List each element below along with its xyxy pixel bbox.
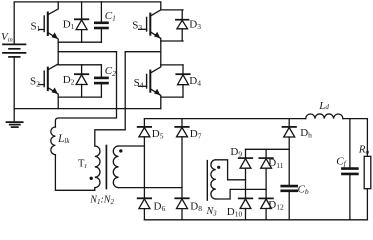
wire S2 snubber top bbox=[58, 64, 101, 66]
transformer core bbox=[105, 146, 107, 189]
diode D6 bbox=[138, 198, 151, 208]
battery Vin bbox=[3, 44, 26, 57]
svg-text:C2: C2 bbox=[105, 65, 116, 78]
top rail wire bbox=[14, 2, 161, 45]
svg-text:S3: S3 bbox=[132, 19, 142, 32]
wire secondary top to bridge bbox=[119, 145, 145, 147]
wire node A mid rail bbox=[58, 42, 116, 52]
diode D12 bbox=[259, 198, 273, 208]
transformer Tr primary winding N1 bbox=[95, 146, 100, 188]
svg-text:D11: D11 bbox=[268, 157, 283, 170]
wire L1k to primary bottom bbox=[55, 155, 94, 191]
wire N3 bottom to D11 leg bbox=[216, 189, 266, 199]
inductor Lf bbox=[306, 114, 343, 119]
resistor Ro bbox=[364, 156, 371, 188]
negative rail wire bbox=[14, 108, 161, 110]
diode D2 bbox=[75, 65, 88, 97]
diode D8 bbox=[175, 198, 188, 208]
wire battery to ground bbox=[13, 57, 15, 122]
wire S4 box bottom bbox=[161, 97, 183, 109]
wire rectifier bottom rail bbox=[144, 219, 367, 221]
transistor S2 bbox=[39, 52, 58, 97]
wire S3 box top bbox=[161, 9, 183, 11]
diode D3 bbox=[176, 10, 189, 41]
diode D1 bbox=[75, 2, 88, 42]
primary dot bbox=[90, 177, 93, 180]
svg-text:D12: D12 bbox=[268, 199, 284, 212]
svg-text:D4: D4 bbox=[189, 75, 201, 88]
rectifier right leg wire bbox=[181, 119, 183, 220]
svg-text:Dh: Dh bbox=[300, 127, 312, 140]
diode D9 bbox=[239, 158, 253, 168]
holdup diode leg wire bbox=[288, 119, 290, 185]
auxiliary winding N3 core bbox=[206, 161, 208, 201]
wire S3 box bottom bbox=[161, 40, 183, 42]
capacitor Cf bbox=[342, 119, 357, 220]
wire S4 box top bbox=[161, 64, 183, 66]
svg-text:D2: D2 bbox=[63, 74, 75, 87]
svg-text:D9: D9 bbox=[230, 146, 242, 159]
transformer Tr secondary winding N2 bbox=[113, 146, 118, 188]
svg-text:Vin: Vin bbox=[1, 31, 13, 43]
diode D5 bbox=[138, 127, 151, 137]
wire rectifier top rail bbox=[144, 118, 305, 120]
svg-text:N1:N2: N1:N2 bbox=[89, 195, 114, 207]
svg-text:Cb: Cb bbox=[298, 184, 309, 197]
capacitor C1 bbox=[95, 2, 107, 42]
svg-text:Cf: Cf bbox=[336, 156, 346, 169]
svg-text:Llk: Llk bbox=[57, 133, 70, 145]
secondary dot bbox=[119, 149, 122, 152]
ground bbox=[7, 122, 23, 127]
clamp left leg wire bbox=[245, 149, 247, 220]
transistor S1 bbox=[39, 2, 58, 42]
wire S1 snubber bottom bbox=[58, 41, 101, 43]
diode D11 bbox=[259, 158, 273, 168]
svg-text:N3: N3 bbox=[206, 206, 218, 218]
diode D10 bbox=[239, 198, 253, 208]
svg-text:S4: S4 bbox=[134, 77, 144, 90]
wire Lf to output bbox=[343, 119, 368, 157]
svg-text:D6: D6 bbox=[154, 201, 166, 214]
wire Ro bottom bbox=[366, 189, 368, 220]
diode D4 bbox=[176, 65, 189, 97]
transistor S4 bbox=[139, 65, 161, 97]
svg-text:S1: S1 bbox=[31, 20, 41, 33]
wire secondary bottom to bridge bbox=[119, 187, 183, 189]
svg-text:Ld: Ld bbox=[318, 100, 329, 112]
capacitor Cb bbox=[282, 186, 297, 220]
clamp right leg wire bbox=[265, 149, 267, 220]
capacitor C2 bbox=[95, 65, 107, 97]
wire S2 emitter to negative rail bbox=[57, 97, 59, 109]
svg-text:S2: S2 bbox=[30, 76, 40, 89]
svg-text:C1: C1 bbox=[105, 10, 116, 23]
svg-text:D1: D1 bbox=[63, 18, 75, 31]
wire S2 snubber bottom bbox=[58, 96, 101, 98]
diode D7 bbox=[175, 127, 188, 137]
rectifier left leg wire bbox=[143, 119, 145, 220]
diode Dh bbox=[283, 127, 296, 137]
wire node B rail bbox=[125, 41, 161, 65]
svg-text:Tr: Tr bbox=[78, 159, 87, 170]
N3 dot bbox=[217, 166, 220, 169]
svg-text:D7: D7 bbox=[190, 128, 202, 141]
wire node A to leakage inductor bbox=[55, 52, 116, 127]
transistor S3 bbox=[139, 10, 161, 41]
svg-text:D3: D3 bbox=[189, 18, 201, 31]
wire N3 top to D9 leg bbox=[216, 160, 246, 180]
clamp top bus wire bbox=[246, 148, 290, 150]
inductor L1k bbox=[51, 127, 56, 155]
auxiliary winding N3 bbox=[211, 160, 216, 199]
svg-text:D5: D5 bbox=[152, 128, 164, 141]
wire node B to primary top bbox=[95, 52, 125, 146]
svg-text:D8: D8 bbox=[190, 201, 202, 214]
